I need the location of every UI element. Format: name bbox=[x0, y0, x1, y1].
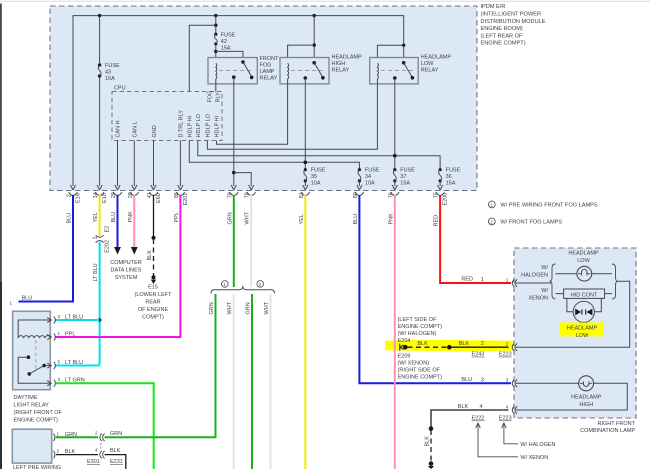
svg-text:HEADLAMP: HEADLAMP bbox=[571, 395, 602, 401]
wire xenon row right bbox=[605, 293, 612, 295]
svg-text:FUSE: FUSE bbox=[105, 63, 120, 69]
node junction BLK solid bbox=[447, 345, 452, 350]
wire BLK dashed ground drop bbox=[430, 430, 432, 463]
pin 5 LT BLU terminal bbox=[47, 360, 83, 370]
svg-text:43: 43 bbox=[105, 70, 111, 76]
box HID CONT bbox=[564, 289, 605, 299]
label HEADLAMP HIGH RELAY bbox=[332, 55, 363, 74]
pin 75 E200 exit bbox=[434, 185, 449, 206]
wire BLK pin41 drop bbox=[153, 195, 155, 238]
node junction BLK option split bbox=[403, 345, 408, 350]
wire GRN to riser bbox=[105, 294, 216, 437]
label pin FOG RLY bbox=[208, 91, 222, 103]
svg-text:HDLP LO: HDLP LO bbox=[196, 113, 202, 137]
pin 4 lamp terminal bbox=[506, 404, 517, 414]
svg-text:1: 1 bbox=[506, 277, 509, 282]
svg-text:RELAY: RELAY bbox=[260, 76, 278, 82]
svg-text:BLU: BLU bbox=[67, 213, 73, 224]
svg-text:XENON: XENON bbox=[528, 296, 548, 302]
svg-text:3: 3 bbox=[506, 378, 509, 383]
wire WHT pin78 drop bbox=[250, 195, 252, 287]
svg-text:E231: E231 bbox=[110, 459, 123, 465]
pin 3 lamp terminal bbox=[506, 378, 517, 388]
arrow BLU to computer data lines bbox=[114, 247, 121, 255]
svg-text:BLK: BLK bbox=[425, 436, 431, 447]
pin 2 lamp terminal bbox=[506, 342, 517, 352]
svg-text:PNK: PNK bbox=[128, 211, 134, 223]
pin 76 exit bbox=[388, 185, 399, 198]
wire GRN pin79 drop bbox=[233, 195, 235, 287]
node bus junction at fuse 42 bbox=[214, 14, 217, 17]
label DAYTIME LIGHT RELAY bbox=[14, 395, 63, 424]
node junction fog output branch bbox=[232, 171, 236, 175]
svg-text:W/ XENON: W/ XENON bbox=[520, 455, 548, 461]
svg-text:(W/ XENON): (W/ XENON) bbox=[398, 360, 430, 366]
svg-text:GRN: GRN bbox=[110, 431, 122, 437]
label W/ XENON option bbox=[528, 288, 548, 302]
svg-text:2: 2 bbox=[57, 449, 60, 454]
brace right options bbox=[612, 264, 618, 299]
svg-text:34: 34 bbox=[365, 174, 371, 180]
ground E15 bbox=[151, 275, 156, 284]
svg-text:(LEFT REAR OF: (LEFT REAR OF bbox=[481, 33, 523, 39]
wire halogen row right bbox=[592, 273, 612, 275]
svg-text:80: 80 bbox=[353, 192, 359, 198]
svg-text:BLK: BLK bbox=[417, 341, 428, 347]
svg-text:3: 3 bbox=[58, 377, 61, 382]
svg-text:1: 1 bbox=[481, 277, 484, 283]
svg-text:BLU: BLU bbox=[461, 377, 472, 383]
wire BLU pin2 to daytime relay area bbox=[19, 195, 74, 302]
pin 2 LT BLU terminal bbox=[47, 314, 83, 324]
svg-text:FOG: FOG bbox=[260, 63, 272, 69]
svg-text:LEFT PRE WIRING: LEFT PRE WIRING bbox=[13, 465, 61, 469]
wire fuse 42 drop bbox=[215, 16, 217, 58]
label HEADLAMP LOW title bbox=[568, 251, 599, 264]
svg-text:37: 37 bbox=[400, 174, 406, 180]
svg-text:CAN H: CAN H bbox=[116, 120, 122, 137]
wire PPL pin85 to daytime relay bbox=[56, 195, 181, 337]
wire GRN option1 drop bbox=[215, 294, 217, 437]
svg-text:(INTELLIGENT POWER: (INTELLIGENT POWER bbox=[481, 12, 542, 18]
fuse F43 bbox=[95, 63, 104, 78]
bulb halogen high bbox=[579, 376, 594, 391]
connector E231 bbox=[95, 443, 123, 465]
wire relay1 coil to CPU FOG RLY pin bbox=[215, 79, 217, 92]
svg-text:1: 1 bbox=[10, 300, 13, 305]
svg-text:1: 1 bbox=[57, 431, 60, 436]
highlight yellow headlamp low label bbox=[560, 323, 605, 337]
svg-text:LAMP: LAMP bbox=[260, 69, 275, 75]
svg-text:10A: 10A bbox=[105, 76, 115, 82]
svg-text:15A: 15A bbox=[400, 181, 410, 187]
svg-text:79: 79 bbox=[227, 192, 233, 198]
wire HDLP HI coil line L1 bbox=[217, 79, 288, 144]
node junction relay2 output on L4 bbox=[304, 161, 308, 165]
svg-text:14: 14 bbox=[93, 192, 99, 198]
wire relay1 output drop bbox=[233, 77, 235, 186]
svg-text:RIGHT FRONT: RIGHT FRONT bbox=[598, 421, 636, 427]
svg-text:(LOWER LEFT: (LOWER LEFT bbox=[135, 292, 173, 298]
svg-text:ENGINE COMPT): ENGINE COMPT) bbox=[481, 41, 526, 47]
svg-text:E204: E204 bbox=[398, 338, 411, 344]
label E204 text block bbox=[398, 317, 442, 344]
label FUSE 37 15A bbox=[400, 168, 415, 187]
wire GRN option2 drop bbox=[251, 294, 253, 469]
svg-text:E301: E301 bbox=[87, 459, 100, 465]
svg-text:2: 2 bbox=[58, 314, 61, 319]
pin 28 exit bbox=[128, 185, 139, 198]
wire LT BLU from E202 bbox=[99, 242, 101, 366]
svg-text:BLU: BLU bbox=[111, 212, 117, 223]
fuse F37 bbox=[393, 168, 396, 186]
coil daytime relay bbox=[18, 336, 50, 338]
svg-text:BLK: BLK bbox=[459, 341, 470, 347]
pin 2 BLK terminal prewiring bbox=[54, 449, 76, 459]
svg-text:WHT: WHT bbox=[264, 301, 270, 314]
svg-text:RELAY: RELAY bbox=[421, 68, 439, 74]
wire WHT option1 drop bbox=[233, 294, 235, 469]
label HEADLAMP LOW RELAY bbox=[421, 55, 452, 74]
svg-text:E243: E243 bbox=[472, 352, 485, 358]
pin 1 GRN terminal prewiring bbox=[54, 431, 78, 441]
wire YEL pin81 drop bbox=[304, 195, 306, 469]
pin 80 exit bbox=[353, 185, 364, 198]
svg-text:78: 78 bbox=[245, 192, 251, 198]
svg-text:ENGINE COMPT): ENGINE COMPT) bbox=[398, 374, 442, 380]
wire relay3 output drop bbox=[394, 78, 396, 170]
label HEADLAMP LOW highlighted bbox=[567, 326, 598, 339]
svg-text:ENGINE COMPT): ENGINE COMPT) bbox=[14, 418, 58, 424]
fuse F35 bbox=[304, 168, 307, 186]
svg-text:RLY: RLY bbox=[216, 92, 222, 103]
mech link dashed bbox=[35, 340, 37, 369]
svg-text:15A: 15A bbox=[446, 181, 456, 187]
wire high beam return bbox=[516, 383, 627, 410]
wire PNK pin28 to data lines bbox=[133, 195, 135, 247]
bulb halogen low bbox=[577, 266, 592, 281]
wire LT GRN from pin 3 bbox=[56, 383, 154, 469]
svg-text:BLK: BLK bbox=[147, 250, 153, 261]
label HEADLAMP HIGH bbox=[571, 395, 602, 409]
svg-text:IPDM E/R: IPDM E/R bbox=[481, 4, 506, 10]
pin 14 E18 exit bbox=[93, 185, 108, 203]
node junction BLK connector bbox=[152, 236, 156, 240]
wire BLK prewiring row bbox=[56, 454, 98, 456]
wire BLK dashed to E15 ground bbox=[153, 239, 155, 276]
node junction relay3 output on L3 bbox=[393, 154, 397, 158]
wire relay2 coil feed bbox=[288, 45, 315, 61]
wire high beam feed bbox=[516, 382, 579, 384]
wire D TRL RLY pin drop bbox=[179, 141, 181, 187]
svg-text:HEADLAMP: HEADLAMP bbox=[332, 55, 363, 61]
ground arrow bottom bbox=[428, 466, 434, 469]
connector E301 bbox=[87, 430, 105, 465]
svg-text:GRN: GRN bbox=[227, 212, 233, 224]
pin 81 exit bbox=[299, 185, 310, 198]
node bus junction at fuse 43 bbox=[98, 14, 101, 17]
note 2 W/ FRONT FOG LAMPS bbox=[488, 218, 562, 225]
svg-text:(W/ HALOGEN): (W/ HALOGEN) bbox=[398, 331, 437, 337]
svg-text:GRN: GRN bbox=[209, 302, 215, 314]
svg-text:5: 5 bbox=[58, 360, 61, 365]
wire xenon row left bbox=[556, 293, 564, 295]
wire BLK down to edge bbox=[105, 455, 126, 469]
pin 79 exit bbox=[227, 185, 238, 198]
svg-text:RELAY: RELAY bbox=[332, 68, 350, 74]
pin 1 PPL terminal bbox=[47, 331, 75, 341]
wire LT BLU to relay pin 5 bbox=[56, 365, 100, 367]
svg-text:REAR: REAR bbox=[145, 300, 160, 306]
svg-text:W/ PRE WIRING FRONT FOG LAMPS: W/ PRE WIRING FRONT FOG LAMPS bbox=[500, 202, 597, 208]
svg-text:WHT: WHT bbox=[245, 211, 251, 224]
wire relay1 pivot feed bbox=[216, 51, 243, 62]
wire RED pin75 to headlamp low bbox=[440, 195, 511, 283]
pin 2 E16 exit bbox=[67, 185, 82, 203]
svg-text:(LEFT SIDE OF: (LEFT SIDE OF bbox=[398, 317, 437, 323]
svg-text:HALOGEN: HALOGEN bbox=[521, 273, 548, 279]
svg-text:COMBINATION LAMP: COMBINATION LAMP bbox=[580, 428, 635, 434]
callout W/ XENON arrow bbox=[476, 423, 549, 461]
wire BLK solid to lamp pin2 bbox=[449, 346, 508, 348]
label E15 ground text bbox=[135, 285, 173, 321]
label FRONT FOG LAMP RELAY bbox=[260, 56, 280, 82]
connector E2 E202 inline bbox=[93, 226, 111, 253]
wire YEL pin14 drop bbox=[99, 195, 101, 236]
svg-text:CPU: CPU bbox=[114, 86, 126, 92]
svg-text:E15: E15 bbox=[148, 285, 158, 291]
label E209 text block bbox=[398, 353, 442, 380]
note 1 W/ PRE WIRING FRONT FOG LAMPS bbox=[488, 201, 597, 208]
arrow PNK to computer data lines bbox=[131, 247, 138, 255]
svg-text:HDLP LO: HDLP LO bbox=[205, 113, 211, 137]
switch arm and contact to pin 5 bbox=[28, 364, 51, 376]
svg-text:HIGH: HIGH bbox=[332, 61, 346, 67]
node bus junction at relay2 feed bbox=[313, 14, 316, 17]
svg-text:E209: E209 bbox=[398, 353, 411, 359]
svg-text:GND: GND bbox=[152, 125, 158, 137]
svg-text:HDLP HI: HDLP HI bbox=[187, 115, 193, 137]
svg-text:1: 1 bbox=[93, 236, 99, 239]
note circled 1 option bbox=[222, 281, 229, 288]
wire HDLP LO sense line L3 bbox=[198, 141, 440, 170]
brace left options bbox=[550, 264, 556, 299]
svg-text:LIGHT RELAY: LIGHT RELAY bbox=[14, 403, 50, 409]
wire CAN L pin drop bbox=[133, 141, 135, 187]
svg-text:DISTRIBUTION MODULE: DISTRIBUTION MODULE bbox=[481, 19, 546, 25]
page top rule bbox=[0, 0, 650, 2]
svg-text:HIGH: HIGH bbox=[579, 402, 593, 408]
label RIGHT FRONT COMBINATION LAMP bbox=[580, 421, 636, 434]
svg-text:36: 36 bbox=[446, 174, 452, 180]
wire CPU power feed bbox=[189, 25, 216, 91]
fuse F42 bbox=[211, 33, 220, 46]
svg-text:E16: E16 bbox=[76, 193, 82, 203]
svg-text:4: 4 bbox=[506, 404, 509, 409]
node junction BLK ground bottom bbox=[429, 461, 434, 466]
svg-text:W/ HALOGEN: W/ HALOGEN bbox=[520, 442, 555, 448]
switch common path to pin 3 bbox=[18, 355, 50, 383]
svg-text:28: 28 bbox=[128, 192, 134, 198]
svg-text:YEL: YEL bbox=[93, 212, 99, 222]
wire fog output branch to pin 78 bbox=[234, 173, 251, 186]
wire xenon bulb loop bbox=[567, 298, 573, 311]
svg-text:E2: E2 bbox=[104, 226, 110, 233]
splice brace options bbox=[211, 287, 275, 294]
page edge bar bbox=[0, 4, 2, 469]
wire LT BLU to relay pin 2 bbox=[56, 319, 100, 321]
svg-text:GRN: GRN bbox=[246, 302, 252, 314]
svg-text:WHT: WHT bbox=[227, 301, 233, 314]
node junction relay3 feed bbox=[402, 44, 405, 47]
svg-text:2: 2 bbox=[506, 342, 509, 347]
node junction relay1 pivot branch bbox=[214, 50, 217, 53]
svg-text:SYSTEM: SYSTEM bbox=[115, 275, 138, 281]
svg-text:75: 75 bbox=[434, 192, 440, 198]
svg-text:E223: E223 bbox=[499, 352, 512, 358]
svg-text:E222: E222 bbox=[472, 416, 485, 422]
label FUSE 36 15A bbox=[446, 168, 461, 187]
svg-text:ENGINE COMPT): ENGINE COMPT) bbox=[398, 324, 442, 330]
pin 29 exit bbox=[111, 185, 122, 198]
wire relay3 pivot drop bbox=[403, 45, 405, 63]
svg-text:BLU: BLU bbox=[353, 214, 359, 225]
fuse F36 bbox=[439, 168, 442, 186]
svg-text:15A: 15A bbox=[221, 45, 231, 51]
wire PNK pin76 drop bbox=[394, 195, 396, 469]
node junction BLK ground top bbox=[429, 426, 434, 431]
node junction LT BLU branch bbox=[98, 318, 102, 322]
svg-text:HEADLAMP: HEADLAMP bbox=[567, 326, 598, 332]
svg-text:ENGINE ROOM): ENGINE ROOM) bbox=[481, 26, 523, 32]
svg-text:E18: E18 bbox=[102, 193, 108, 203]
relay K3 HEADLAMP LOW RELAY bbox=[370, 58, 419, 84]
svg-text:2: 2 bbox=[67, 194, 73, 197]
svg-text:4: 4 bbox=[480, 404, 483, 410]
wire relay3 coil feed bbox=[377, 45, 403, 61]
wire HDLP HI sense line L4 bbox=[189, 141, 359, 170]
svg-text:E200: E200 bbox=[443, 193, 449, 206]
svg-text:RED: RED bbox=[461, 277, 473, 283]
svg-text:W/ FRONT FOG LAMPS: W/ FRONT FOG LAMPS bbox=[500, 219, 562, 225]
label FUSE 34 10A bbox=[365, 168, 380, 187]
note circled 2 option bbox=[257, 281, 264, 288]
svg-text:BLK: BLK bbox=[110, 448, 121, 454]
wire relay2 feed drop bbox=[313, 16, 315, 63]
label FUSE 42 15A bbox=[221, 32, 236, 51]
svg-text:1: 1 bbox=[490, 202, 493, 207]
wire GND pin drop bbox=[153, 141, 155, 187]
box LEFT PRE WIRING bbox=[12, 429, 51, 463]
highlight yellow band BLK ground run bbox=[385, 340, 513, 352]
svg-text:FUSE: FUSE bbox=[221, 32, 236, 38]
svg-text:1: 1 bbox=[223, 282, 226, 287]
CPU box bbox=[112, 92, 222, 141]
wire BLK pin4 run bbox=[431, 410, 509, 428]
svg-text:3: 3 bbox=[481, 378, 484, 384]
wire BLU pin29 to data lines bbox=[117, 195, 119, 247]
relay DAYTIME LIGHT RELAY box bbox=[13, 311, 51, 389]
svg-text:LT BLU: LT BLU bbox=[93, 263, 99, 281]
svg-text:81: 81 bbox=[299, 192, 305, 198]
label W/ HALOGEN option bbox=[521, 265, 548, 279]
svg-text:2: 2 bbox=[481, 341, 484, 347]
svg-text:PPL: PPL bbox=[65, 332, 75, 338]
wire lamp feed to brace bbox=[516, 282, 551, 284]
svg-text:W/: W/ bbox=[541, 265, 548, 271]
svg-text:LT BLU: LT BLU bbox=[65, 360, 83, 366]
wire BLU pin80 to headlamp high bbox=[359, 195, 511, 383]
svg-text:29: 29 bbox=[111, 192, 117, 198]
svg-text:FRONT: FRONT bbox=[260, 56, 280, 62]
svg-text:YEL: YEL bbox=[299, 214, 305, 224]
svg-text:41: 41 bbox=[147, 192, 153, 198]
relay K2 HEADLAMP HIGH RELAY bbox=[280, 58, 329, 84]
label FUSE 43 10A bbox=[105, 63, 120, 82]
svg-text:PNK: PNK bbox=[388, 213, 394, 225]
svg-text:HEADLAMP: HEADLAMP bbox=[568, 251, 599, 257]
pin 78 exit bbox=[245, 185, 256, 198]
label IPDM E/R text block bbox=[481, 4, 546, 47]
fuse F34 bbox=[358, 168, 361, 186]
svg-text:(RIGHT SIDE OF: (RIGHT SIDE OF bbox=[398, 367, 441, 373]
wire relay2 output drop bbox=[304, 78, 306, 170]
svg-text:LT BLU: LT BLU bbox=[65, 315, 83, 321]
svg-text:E201: E201 bbox=[183, 193, 189, 206]
wire low beam return bbox=[516, 281, 630, 347]
svg-text:W/: W/ bbox=[541, 288, 548, 294]
IPDM E/R module box bbox=[50, 6, 477, 191]
svg-text:(RIGHT FRONT OF: (RIGHT FRONT OF bbox=[14, 410, 63, 416]
svg-text:76: 76 bbox=[388, 192, 394, 198]
callout W/ HALOGEN arrow bbox=[502, 423, 556, 448]
pin 3 LT GRN terminal bbox=[47, 377, 84, 387]
wire BLK dashed option run bbox=[408, 346, 449, 348]
svg-text:FUSE: FUSE bbox=[365, 168, 380, 174]
svg-text:LOW: LOW bbox=[577, 258, 590, 264]
svg-text:LOW: LOW bbox=[576, 333, 589, 339]
svg-text:RED: RED bbox=[434, 215, 440, 227]
wire GRN prewiring row bbox=[56, 436, 98, 438]
ground marker E204 E209 bbox=[400, 344, 404, 351]
svg-text:HID CONT: HID CONT bbox=[571, 293, 598, 299]
svg-text:HDLP HI: HDLP HI bbox=[215, 115, 221, 137]
relay K1 FRONT FOG LAMP RELAY bbox=[208, 58, 257, 84]
svg-text:10A: 10A bbox=[311, 181, 321, 187]
svg-text:OF ENGINE: OF ENGINE bbox=[138, 307, 169, 313]
svg-text:PPL: PPL bbox=[174, 212, 180, 222]
wire fuse 43 drop bbox=[99, 16, 101, 186]
node junction CPU feed branch bbox=[214, 24, 217, 27]
svg-text:DAYTIME: DAYTIME bbox=[14, 395, 38, 401]
svg-text:COMPT): COMPT) bbox=[142, 315, 164, 321]
wire halogen row bbox=[556, 273, 577, 275]
svg-text:CAN L: CAN L bbox=[132, 121, 138, 137]
label COMPUTER DATA LINES SYSTEM bbox=[110, 260, 142, 281]
svg-text:85: 85 bbox=[174, 192, 180, 198]
svg-text:10A: 10A bbox=[365, 181, 375, 187]
svg-text:FOG: FOG bbox=[208, 91, 214, 103]
svg-text:1: 1 bbox=[58, 331, 61, 336]
svg-text:42: 42 bbox=[221, 39, 227, 45]
bulb xenon low bbox=[573, 301, 594, 322]
svg-text:DATA LINES: DATA LINES bbox=[111, 268, 142, 274]
svg-text:COMPUTER: COMPUTER bbox=[110, 260, 142, 266]
wire WHT option2 drop bbox=[270, 294, 272, 469]
lamp RIGHT FRONT COMBINATION LAMP box bbox=[514, 248, 636, 418]
svg-text:FUSE: FUSE bbox=[400, 168, 415, 174]
svg-text:E202: E202 bbox=[104, 240, 110, 253]
